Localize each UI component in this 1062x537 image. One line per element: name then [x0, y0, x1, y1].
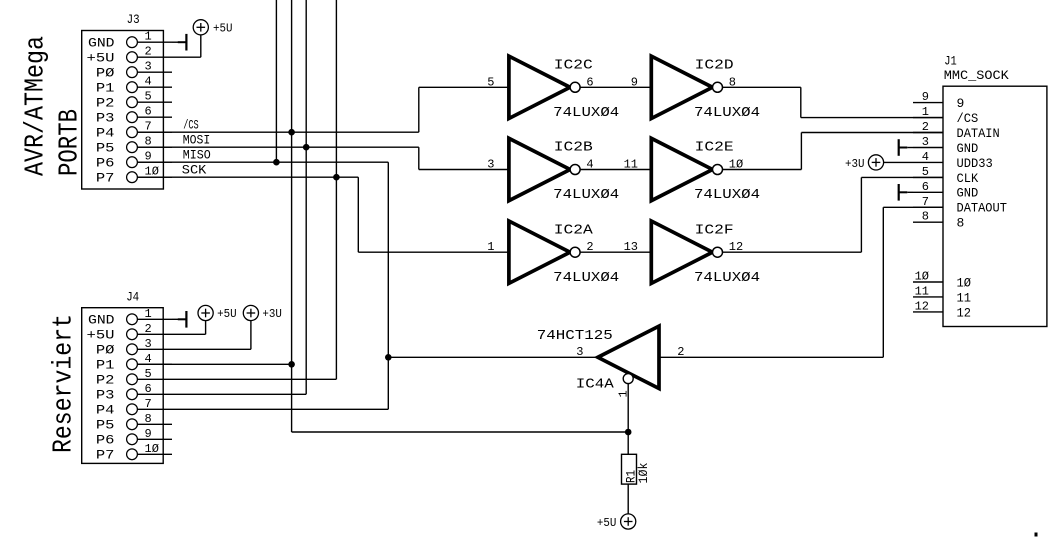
svg-text:+3U: +3U	[262, 307, 282, 321]
svg-text:12: 12	[915, 299, 929, 313]
svg-text:9: 9	[631, 75, 638, 89]
svg-text:+5U: +5U	[87, 328, 115, 343]
svg-text:12: 12	[729, 240, 743, 254]
svg-text:3: 3	[576, 345, 583, 359]
svg-text:7: 7	[145, 120, 152, 134]
svg-text:74HCT125: 74HCT125	[537, 328, 613, 344]
svg-text:5: 5	[922, 165, 929, 179]
svg-text:GND: GND	[957, 186, 979, 201]
svg-text:74LUXØ4: 74LUXØ4	[553, 187, 619, 203]
svg-text:7: 7	[922, 195, 929, 209]
svg-text:1: 1	[616, 390, 630, 397]
svg-text:1Ø: 1Ø	[957, 275, 972, 290]
svg-text:P1: P1	[96, 358, 115, 373]
svg-text:IC2B: IC2B	[554, 140, 593, 156]
svg-text:IC2E: IC2E	[695, 140, 734, 156]
svg-text:2: 2	[145, 45, 152, 59]
svg-text:2: 2	[586, 240, 593, 254]
svg-text:1: 1	[922, 105, 929, 119]
svg-text:4: 4	[922, 150, 929, 164]
svg-text:11: 11	[915, 284, 929, 298]
svg-text:9: 9	[957, 96, 965, 111]
svg-text:74LUXØ4: 74LUXØ4	[553, 105, 619, 121]
svg-text:DATAIN: DATAIN	[957, 126, 1000, 141]
svg-text:P5: P5	[96, 141, 115, 156]
svg-text:Reserviert: Reserviert	[50, 314, 80, 453]
svg-text:74LUXØ4: 74LUXØ4	[694, 270, 760, 286]
svg-text:4: 4	[586, 158, 593, 172]
svg-text:1Ø: 1Ø	[729, 158, 743, 172]
svg-text:P4: P4	[96, 403, 115, 418]
svg-text:+5U: +5U	[217, 307, 237, 321]
svg-text:8: 8	[922, 210, 929, 224]
svg-text:6: 6	[145, 382, 152, 396]
svg-text:7: 7	[145, 397, 152, 411]
svg-text:P3: P3	[96, 111, 115, 126]
svg-text:11: 11	[957, 290, 972, 305]
svg-text:MISO: MISO	[183, 148, 211, 163]
svg-text:8: 8	[957, 216, 965, 231]
svg-text:PØ: PØ	[96, 343, 115, 358]
svg-text:GND: GND	[88, 36, 115, 51]
svg-text:5: 5	[145, 90, 152, 104]
svg-text:+5U: +5U	[87, 51, 115, 66]
svg-text:1Ø: 1Ø	[915, 270, 929, 284]
svg-text:5: 5	[487, 75, 494, 89]
svg-text:3: 3	[145, 337, 152, 351]
svg-text:9: 9	[145, 427, 152, 441]
svg-text:8: 8	[729, 75, 736, 89]
svg-text:P6: P6	[96, 156, 115, 171]
svg-text:2: 2	[677, 345, 684, 359]
svg-text:1Øk: 1Øk	[636, 462, 651, 483]
svg-text:74LUXØ4: 74LUXØ4	[694, 105, 760, 121]
svg-text:+5U: +5U	[213, 21, 233, 35]
svg-text:P3: P3	[96, 388, 115, 403]
svg-text:IC2F: IC2F	[695, 222, 734, 238]
svg-text:MOSI: MOSI	[183, 133, 211, 148]
svg-text:3: 3	[922, 135, 929, 149]
svg-text:GND: GND	[88, 313, 115, 328]
svg-text:PØ: PØ	[96, 66, 115, 81]
svg-text:PORTB: PORTB	[56, 109, 86, 176]
svg-text:J4: J4	[126, 290, 139, 305]
svg-text:P2: P2	[96, 373, 115, 388]
svg-text:+5U: +5U	[597, 516, 617, 530]
svg-text:P1: P1	[96, 81, 115, 96]
svg-text:P5: P5	[96, 418, 115, 433]
svg-text:9: 9	[922, 90, 929, 104]
svg-text:2: 2	[145, 322, 152, 336]
svg-text:/CS: /CS	[957, 111, 979, 126]
svg-text:SCK: SCK	[182, 163, 207, 178]
svg-text:6: 6	[922, 180, 929, 194]
svg-text:P2: P2	[96, 96, 115, 111]
svg-text:IC2D: IC2D	[695, 58, 734, 74]
svg-text:8: 8	[145, 412, 152, 426]
svg-text:1: 1	[145, 30, 152, 44]
svg-text:AVR/ATMega: AVR/ATMega	[22, 36, 52, 176]
svg-text:P7: P7	[96, 171, 115, 186]
svg-text:74LUXØ4: 74LUXØ4	[553, 270, 619, 286]
svg-text:4: 4	[145, 75, 152, 89]
svg-text:J1: J1	[944, 53, 957, 68]
svg-text:P6: P6	[96, 433, 115, 448]
svg-text:P7: P7	[96, 448, 115, 463]
svg-text:GND: GND	[957, 141, 979, 156]
svg-text:12: 12	[957, 305, 972, 320]
svg-text:P4: P4	[96, 126, 115, 141]
svg-text:6: 6	[145, 105, 152, 119]
svg-text:13: 13	[624, 240, 638, 254]
svg-text:6: 6	[586, 75, 593, 89]
svg-text:1Ø: 1Ø	[145, 442, 159, 456]
svg-text:2: 2	[922, 120, 929, 134]
svg-text:IC2A: IC2A	[554, 222, 594, 238]
svg-text:74LUXØ4: 74LUXØ4	[694, 187, 760, 203]
svg-text:UDD33: UDD33	[957, 156, 993, 171]
svg-text:3: 3	[487, 158, 494, 172]
svg-text:/CS: /CS	[183, 118, 199, 133]
svg-text:CLK: CLK	[957, 171, 979, 186]
svg-text:9: 9	[145, 150, 152, 164]
svg-text:J3: J3	[127, 12, 140, 27]
svg-text:5: 5	[145, 367, 152, 381]
svg-text:3: 3	[145, 60, 152, 74]
svg-text:DATAOUT: DATAOUT	[957, 201, 1008, 216]
svg-text:8: 8	[145, 135, 152, 149]
svg-text:11: 11	[624, 158, 638, 172]
svg-text:IC2C: IC2C	[554, 58, 593, 74]
svg-text:1: 1	[145, 307, 152, 321]
svg-text:+3U: +3U	[845, 157, 865, 171]
svg-text:1: 1	[487, 240, 494, 254]
svg-text:MMC_SOCK: MMC_SOCK	[944, 68, 1009, 83]
svg-text:4: 4	[145, 352, 152, 366]
svg-text:IC4A: IC4A	[576, 377, 615, 393]
svg-text:1Ø: 1Ø	[145, 165, 159, 179]
